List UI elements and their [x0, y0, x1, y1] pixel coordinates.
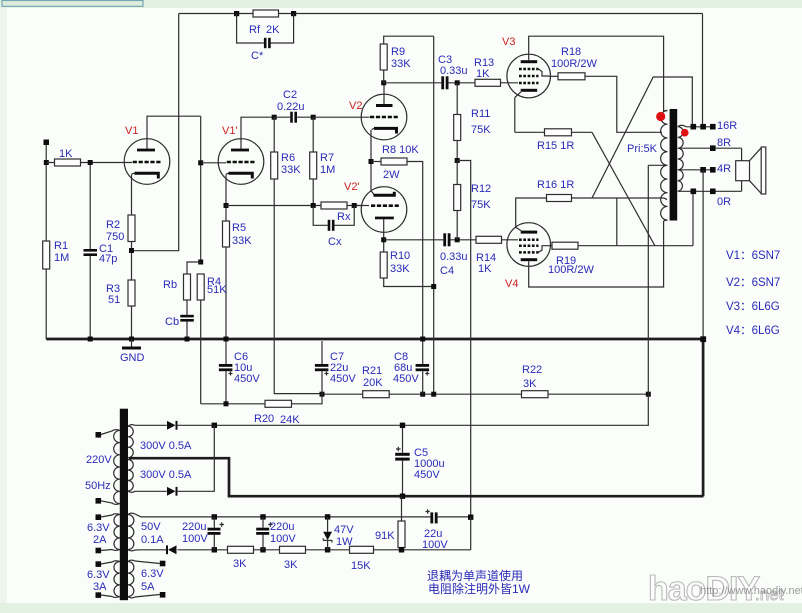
- wire feedback from R2/R3 node to riser: [134, 14, 179, 251]
- svg-text:R8 10K: R8 10K: [382, 144, 419, 156]
- capacitor C2 0.22u: [274, 89, 313, 123]
- wire R20 row: [201, 394, 322, 404]
- feedback top rail: [179, 13, 703, 15]
- svg-text:450V: 450V: [414, 469, 440, 481]
- svg-text:33K: 33K: [390, 263, 410, 275]
- wire bias row1: [141, 516, 430, 518]
- svg-text:50V: 50V: [141, 521, 161, 533]
- resistor R12 75K: [454, 161, 492, 240]
- svg-text:33K: 33K: [232, 235, 252, 247]
- svg-text:V1': V1': [222, 125, 238, 137]
- wire diagonal V4 plate cross to 16R node: [592, 77, 692, 198]
- node R4 top: [198, 260, 203, 265]
- resistor Rf 2K feedback: [249, 10, 280, 36]
- node C2 left: [272, 115, 277, 120]
- svg-text:R9: R9: [391, 46, 405, 58]
- svg-text:R18: R18: [561, 46, 581, 58]
- wire 8R tap row: [678, 147, 742, 149]
- capacitor Cb: [165, 315, 194, 339]
- svg-text:1M: 1M: [320, 164, 335, 176]
- capacitor C4 0.33u: [440, 233, 468, 277]
- speaker: [736, 147, 766, 194]
- wire V1 anode up to coupling line: [147, 116, 201, 148]
- node Rf left: [234, 11, 239, 16]
- primary winding 220V: [85, 430, 120, 505]
- svg-text:R15 1R: R15 1R: [537, 140, 574, 152]
- wire B+ riser x433: [433, 36, 435, 394]
- wire V1 cathode down to R2: [131, 175, 133, 216]
- svg-text:R20: R20: [254, 413, 274, 425]
- wire V2 cathode to V2' anode: [371, 130, 374, 195]
- node V1 grid junction: [88, 160, 93, 165]
- wire V2 anode up: [383, 83, 385, 104]
- bias winding 50V 0.1A: [128, 513, 164, 551]
- resistor R7 1M: [310, 117, 336, 205]
- svg-text:Rb: Rb: [163, 279, 177, 291]
- resistor 15K: [350, 546, 471, 572]
- wire bias row2: [141, 549, 228, 551]
- wire 16R tap row: [686, 126, 716, 128]
- svg-text:V2：6SN7: V2：6SN7: [726, 277, 780, 289]
- wire direct coupling V1 anode to V1' grid and R4: [200, 116, 202, 262]
- svg-text:R21: R21: [362, 365, 382, 377]
- svg-text:V4: V4: [505, 278, 518, 290]
- svg-text:R10: R10: [390, 250, 410, 262]
- svg-text:47V: 47V: [334, 524, 354, 536]
- diode D1 upper rectifier: [167, 421, 214, 430]
- wire C3 row: [384, 82, 475, 84]
- resistor R3 51: [106, 280, 135, 339]
- node R8 left: [369, 159, 374, 164]
- svg-text:3A: 3A: [93, 581, 107, 593]
- node bias takeoff: [468, 515, 473, 520]
- tube V3 6L6G pentode: [502, 36, 551, 98]
- wire V4 plate riser: [516, 198, 547, 227]
- svg-text:20K: 20K: [363, 377, 383, 389]
- node red dot primary top: [656, 112, 665, 121]
- capacitor 220u 100V second: [256, 517, 296, 550]
- svg-text:退耦为单声道使用: 退耦为单声道使用: [427, 568, 523, 583]
- svg-text:6.3V: 6.3V: [141, 568, 164, 580]
- node bias row1 zener: [325, 514, 330, 519]
- capacitor 220u 100V first: [182, 517, 224, 550]
- note text chinese: [427, 568, 531, 596]
- diode D2 lower rectifier: [167, 425, 214, 495]
- resistor R5 33K: [223, 221, 253, 339]
- wire C2 to V2 grid: [313, 116, 369, 118]
- node R2/R3 feedback junction: [129, 248, 134, 253]
- svg-text:0.33u: 0.33u: [440, 251, 468, 263]
- svg-text:GND: GND: [120, 352, 145, 364]
- node C4/R12: [455, 237, 460, 242]
- wire R19 tap riser to plate row: [616, 198, 618, 246]
- svg-text:R5: R5: [232, 222, 246, 234]
- left margin band: [0, 8, 7, 603]
- wire bias takeoff down to row2: [470, 517, 472, 550]
- node 4R squares: [700, 167, 706, 173]
- capacitor C3 0.33u: [438, 54, 468, 89]
- ground symbol GND: [120, 339, 145, 364]
- svg-text:220u: 220u: [182, 521, 206, 533]
- svg-text:V4：6L6G: V4：6L6G: [726, 325, 780, 337]
- top green strip: [0, 0, 802, 8]
- node Rf right: [291, 11, 296, 16]
- svg-text:R12: R12: [471, 183, 491, 195]
- tube V2' 6SN7 triode: [344, 181, 407, 232]
- capacitor C7 22u 450V: [315, 341, 356, 394]
- resistor R21 20K: [362, 365, 389, 398]
- diode D3 bias rectifier: [166, 545, 177, 554]
- output transformer core: [670, 109, 678, 221]
- resistor 3K first: [228, 546, 280, 570]
- svg-text:100V: 100V: [422, 539, 448, 551]
- capacitor C6 10u 450V: [219, 341, 260, 404]
- resistor Rx: [321, 202, 362, 223]
- node 16R squares: [691, 124, 697, 130]
- svg-text:16R: 16R: [717, 120, 737, 132]
- svg-text:2A: 2A: [93, 534, 107, 546]
- svg-text:R11: R11: [471, 108, 490, 120]
- resistor R1 1M: [43, 240, 70, 339]
- svg-text:300V 0.5A: 300V 0.5A: [140, 440, 192, 452]
- resistor R14 1K: [476, 236, 518, 275]
- ground bus: [46, 338, 703, 341]
- svg-text:75K: 75K: [471, 124, 491, 136]
- svg-text:C4: C4: [440, 265, 454, 277]
- resistor R18 100R/2W screen: [549, 46, 662, 132]
- resistor R15 1R: [515, 129, 592, 152]
- svg-text:V2': V2': [344, 181, 360, 193]
- svg-text:6.3V: 6.3V: [87, 569, 110, 581]
- wire V1' grid lead: [201, 162, 226, 164]
- svg-text:51: 51: [108, 294, 120, 306]
- tube V1' 6SN7 triode: [218, 125, 264, 184]
- svg-text:3K: 3K: [233, 558, 247, 570]
- node C2 right: [311, 115, 316, 120]
- wire 16R to top feedback rail: [702, 14, 704, 124]
- svg-text:R6: R6: [281, 152, 295, 164]
- output transformer primary winding Pri:5K: [627, 111, 668, 221]
- wire primary center tap feed: [648, 164, 667, 166]
- svg-text:3K: 3K: [284, 559, 298, 571]
- svg-text:1K: 1K: [478, 263, 492, 275]
- svg-text:0R: 0R: [717, 196, 731, 208]
- svg-text:100V: 100V: [182, 533, 208, 545]
- resistor Rb: [163, 262, 201, 315]
- node bus C1: [88, 337, 93, 342]
- capacitor C* (parallel with Rf): [237, 14, 294, 63]
- capacitor C1 47p: [84, 165, 118, 339]
- svg-text:75K: 75K: [471, 199, 491, 211]
- node R10 to B+ riser: [431, 284, 436, 289]
- heater winding 6.3V 2A: [87, 514, 120, 554]
- node R11/R12 bias: [455, 158, 460, 163]
- wire V4 cathode to primary bottom: [529, 220, 668, 287]
- svg-text:0.22u: 0.22u: [277, 101, 305, 113]
- svg-text:Cb: Cb: [165, 316, 179, 328]
- resistor R13 1K: [474, 57, 518, 86]
- output transformer secondary winding: [678, 125, 686, 191]
- secondary winding 300V 0.5A lower: [128, 460, 192, 493]
- wire primary lower tap join: [664, 198, 667, 200]
- node bus Cb: [185, 337, 190, 342]
- wire V1' cathode down: [225, 175, 227, 222]
- node bus R8: [420, 337, 425, 342]
- svg-text:220V: 220V: [86, 454, 112, 466]
- svg-text:1K: 1K: [476, 68, 490, 80]
- node C5 top: [400, 423, 405, 428]
- svg-text:6.3V: 6.3V: [87, 522, 110, 534]
- svg-text:100V: 100V: [270, 533, 296, 545]
- svg-text:220u: 220u: [270, 521, 294, 533]
- svg-text:24K: 24K: [280, 414, 300, 426]
- svg-text:300V 0.5A: 300V 0.5A: [140, 469, 192, 481]
- svg-text:3K: 3K: [523, 378, 537, 390]
- node 1K left junction: [44, 160, 49, 165]
- svg-text:1K: 1K: [59, 148, 73, 160]
- node B+ C8: [420, 392, 425, 397]
- svg-text:Cx: Cx: [328, 236, 342, 248]
- resistor R2 750: [106, 215, 135, 280]
- svg-text:51K: 51K: [207, 284, 227, 296]
- svg-text:450V: 450V: [330, 373, 356, 385]
- wire center tap thick: [129, 458, 704, 496]
- node C5 bottom: [400, 494, 405, 499]
- tube V2 6SN7 triode: [349, 94, 407, 140]
- node bias row1 cap2: [260, 514, 265, 519]
- node V1' grid: [198, 160, 203, 165]
- wire V2' cathode down: [383, 219, 385, 252]
- svg-text:电阻除注明外皆1W: 电阻除注明外皆1W: [428, 581, 531, 596]
- svg-text:Rf: Rf: [249, 24, 261, 36]
- node C3/R11: [455, 80, 460, 85]
- svg-text:100R/2W: 100R/2W: [551, 58, 597, 70]
- svg-text:5A: 5A: [141, 581, 155, 593]
- node Rx left: [311, 203, 316, 208]
- resistor 1K (input grid stopper): [46, 148, 132, 166]
- svg-text:V3: V3: [502, 36, 515, 48]
- node bus R3: [129, 337, 134, 342]
- secondary winding 300V 0.5A upper: [128, 425, 192, 458]
- tube V1 6SN7 triode: [124, 125, 170, 184]
- svg-text:33K: 33K: [391, 58, 411, 70]
- node B+ C7: [320, 392, 325, 397]
- capacitor Cx (parallel with Rx): [313, 206, 354, 249]
- bottom green strip: [0, 603, 802, 613]
- svg-text:V1：6SN7: V1：6SN7: [726, 250, 780, 262]
- wire C4 row: [384, 239, 476, 241]
- wire ground right side down: [702, 339, 705, 496]
- node 91K bottom: [399, 547, 404, 552]
- B+ rail (filtered): [322, 393, 648, 395]
- svg-text:100R/2W: 100R/2W: [548, 264, 594, 276]
- node bias row2 zener: [325, 547, 330, 552]
- resistor R11 75K: [454, 83, 492, 161]
- power transformer core: [120, 409, 128, 601]
- node rectifier output: [212, 423, 217, 428]
- resistor R10 33K: [380, 250, 434, 287]
- zener diode 47V 1W: [323, 517, 354, 550]
- resistor R20 24K: [254, 400, 300, 426]
- input terminal: [44, 140, 50, 146]
- svg-text:2W: 2W: [383, 169, 400, 181]
- wire 0R return riser: [692, 191, 694, 246]
- wire V3 cathode to R15: [514, 98, 516, 133]
- node bias row2 cap2: [260, 547, 265, 552]
- wire 0R tap row: [678, 190, 742, 192]
- wire ground leg from 0R: [702, 191, 704, 339]
- svg-text:V1: V1: [125, 125, 138, 137]
- wire input down to grid row and R1: [45, 145, 47, 241]
- svg-text:V2: V2: [349, 100, 362, 112]
- svg-text:450V: 450V: [234, 373, 260, 385]
- wire 4R tap row: [678, 169, 716, 171]
- wire OPT center tap riser / main B+: [214, 165, 648, 425]
- wire bias feed to R11/R12 junction: [457, 161, 471, 518]
- svg-text:R22: R22: [522, 364, 542, 376]
- node Rx right: [352, 203, 357, 208]
- heater winding 6.3V 3A: [87, 561, 120, 598]
- node bias row1 cap1: [212, 514, 217, 519]
- resistor R22 3K: [522, 364, 549, 398]
- resistor R19 100R/2W screen: [548, 242, 693, 276]
- wire V2' grid lead: [357, 205, 369, 207]
- node B+ R22 right: [646, 392, 651, 397]
- svg-text:V3：6L6G: V3：6L6G: [726, 301, 780, 313]
- svg-text:R16 1R: R16 1R: [537, 179, 574, 191]
- capacitor 22u 100V bias: [422, 509, 471, 551]
- svg-text:Rx: Rx: [337, 211, 351, 223]
- node B+ riser: [431, 392, 436, 397]
- svg-text:0.33u: 0.33u: [440, 65, 468, 77]
- tube V4 6L6G pentode: [505, 223, 551, 290]
- resistor R16 1R plate: [537, 179, 664, 202]
- resistor R6 33K: [271, 117, 322, 393]
- resistor 91K vertical: [375, 496, 405, 550]
- node bias row2 cap1: [212, 547, 217, 552]
- svg-text:http://www.haodiy.net: http://www.haodiy.net: [700, 585, 802, 597]
- wire V3 plate to primary top rail: [529, 36, 668, 112]
- legend tube types: [726, 250, 780, 337]
- top-left toolbar box: [2, 1, 143, 7]
- heater winding 6.3V 5A: [128, 560, 165, 598]
- svg-text:R1: R1: [54, 240, 68, 252]
- node 0R squares: [691, 189, 697, 195]
- node bus right corner: [700, 336, 706, 342]
- svg-text:91K: 91K: [375, 530, 395, 542]
- svg-text:2K: 2K: [266, 24, 280, 36]
- wire 4R to 0R strap: [702, 170, 704, 191]
- wire diagonal V3 cathode cross to primary bottom node: [592, 132, 655, 245]
- svg-text:15K: 15K: [351, 560, 371, 572]
- svg-text:50Hz: 50Hz: [85, 480, 111, 492]
- node R20 row C6: [224, 401, 229, 406]
- wire cathode row to Rx: [226, 205, 321, 207]
- node V1' cathode row: [224, 203, 229, 208]
- node bus R5: [224, 337, 229, 342]
- resistor R4 51K: [197, 274, 227, 404]
- svg-text:Pri:5K: Pri:5K: [627, 143, 658, 155]
- svg-text:C*: C*: [251, 50, 264, 62]
- svg-text:C2: C2: [283, 89, 297, 101]
- node red dot secondary top: [681, 129, 689, 137]
- watermark haoDIY: [648, 570, 802, 608]
- svg-text:33K: 33K: [281, 164, 301, 176]
- capacitor C8 68u 450V: [393, 341, 429, 394]
- node V2 anode / R9: [381, 80, 386, 85]
- svg-text:47p: 47p: [99, 253, 117, 265]
- svg-text:8R: 8R: [717, 137, 731, 149]
- svg-text:R2: R2: [106, 219, 120, 231]
- node V2' cathode / C4: [381, 237, 386, 242]
- svg-text:0.1A: 0.1A: [141, 534, 164, 546]
- node 8R square: [710, 145, 716, 151]
- resistor R8 10K 2W: [371, 144, 423, 339]
- capacitor C5 1000u 450V: [395, 425, 444, 496]
- svg-text:750: 750: [106, 231, 124, 243]
- resistor 3K second: [280, 546, 350, 571]
- svg-text:450V: 450V: [393, 373, 419, 385]
- wire V1' anode up to C2 node: [241, 117, 274, 148]
- svg-text:4R: 4R: [717, 163, 731, 175]
- resistor R9 33K: [380, 36, 434, 83]
- svg-text:1M: 1M: [54, 252, 69, 264]
- svg-text:R7: R7: [320, 152, 334, 164]
